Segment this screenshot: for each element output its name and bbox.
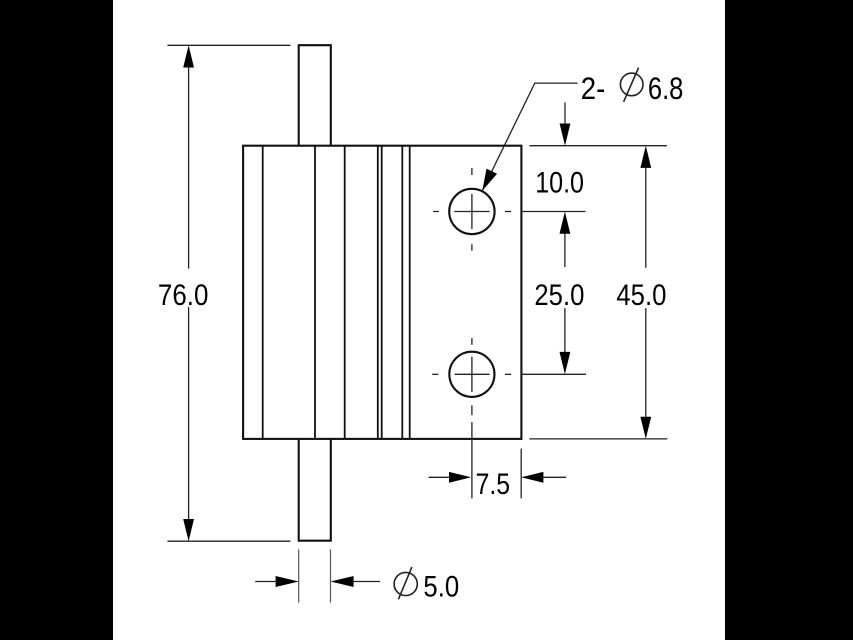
hole 2 centerline vertical cross [471,357,473,392]
25.0 dimension line upper segment [564,233,566,268]
dia5.0 left extension line below pin [298,550,300,603]
top pin [299,45,331,146]
arrowhead 45.0 top (up) [640,146,651,168]
hole 2 centerline horizontal left dash [432,373,438,375]
arrowhead 76.0 top (up) [183,45,194,67]
svg-text:7.5: 7.5 [476,468,511,501]
76.0 dimension line upper segment [188,66,190,269]
diameter symbol in dia 5.0 [394,572,417,595]
45.0 bottom extension line [529,438,667,440]
10.0 dimension stub above plate [564,102,566,124]
bottom pin [299,439,331,541]
arrowhead dia5.0 left (points right) [276,576,299,587]
25.0 dimension line lower segment [564,308,566,353]
body interior edge line 6 [401,146,403,439]
hole 2 (bottom) [449,352,494,397]
hole 1 centerline vertical bottom dash [471,244,473,250]
svg-text:76.0: 76.0 [158,279,209,312]
hole 1 centerline vertical cross [471,194,473,229]
hole 2 centerline vertical bottom dash [471,405,473,415]
arrowhead 10.0 (down onto plate top) [560,124,571,146]
7.5 left arrow tail [429,476,450,478]
arrowhead dia5.0 right (points left) [331,576,354,587]
dia5.0 right extension line below pin [330,550,332,603]
body interior edge line 7 [409,146,411,439]
arrowhead 76.0 bottom (down) [183,519,194,541]
7.5 right extension line [520,449,522,499]
hole 2 centerline vertical long extension (7.5 dim) [471,422,473,498]
dia5.0 left arrow tail [255,581,276,583]
45.0 top extension line [529,145,667,147]
hole 1 centerline horizontal cross [454,211,489,213]
hole 2 centerline horizontal right dash [505,373,511,375]
hole 1 centerline horizontal right dash [505,211,511,213]
svg-text:2-: 2- [581,70,606,106]
svg-text:10.0: 10.0 [535,167,584,200]
leader line to hole 1 [482,83,577,191]
arrowhead 45.0 bottom (down) [640,417,651,439]
svg-text:25.0: 25.0 [534,279,584,312]
45.0 dimension line upper segment [645,167,647,268]
part body outline (hinge leaf) [243,146,521,439]
svg-text:45.0: 45.0 [616,279,666,312]
body interior edge line 5 (close pair b) [381,146,383,439]
body interior edge line 2 [314,146,316,439]
arrowhead 7.5 right (points left) [521,472,543,483]
hole 1 centerline vertical top dash [471,168,473,175]
76.0 top extension line [167,44,290,46]
hole 2 centerline horizontal cross [455,373,490,375]
hole 1 centerline horizontal left dash [433,211,439,213]
hole 1 center extension line [521,211,585,213]
arrowhead 25.0 top (up) [560,212,571,234]
diameter symbol in 2- dia 6.8 callout [620,73,643,96]
white drawing sheet [113,0,725,640]
76.0 dimension line lower segment [188,307,190,520]
svg-text:6.8: 6.8 [648,70,684,106]
76.0 bottom extension line [167,540,290,542]
dia5.0 right arrow tail [352,581,380,583]
7.5 right arrow tail [543,476,566,478]
body interior edge line 3 [344,146,346,439]
45.0 dimension line lower segment [645,308,647,418]
arrowhead 7.5 left (points right) [449,472,471,483]
hole 1 (top) [449,189,494,234]
hole 2 centerline vertical top dash [471,338,473,345]
svg-text:5.0: 5.0 [423,570,459,603]
leader arrowhead at hole 1 [482,169,497,191]
body interior edge line 1 [262,146,264,439]
hole 2 center extension line [521,373,586,375]
body interior edge line 4 (close pair a) [377,146,379,439]
arrowhead 25.0 bottom (down) [560,352,571,374]
